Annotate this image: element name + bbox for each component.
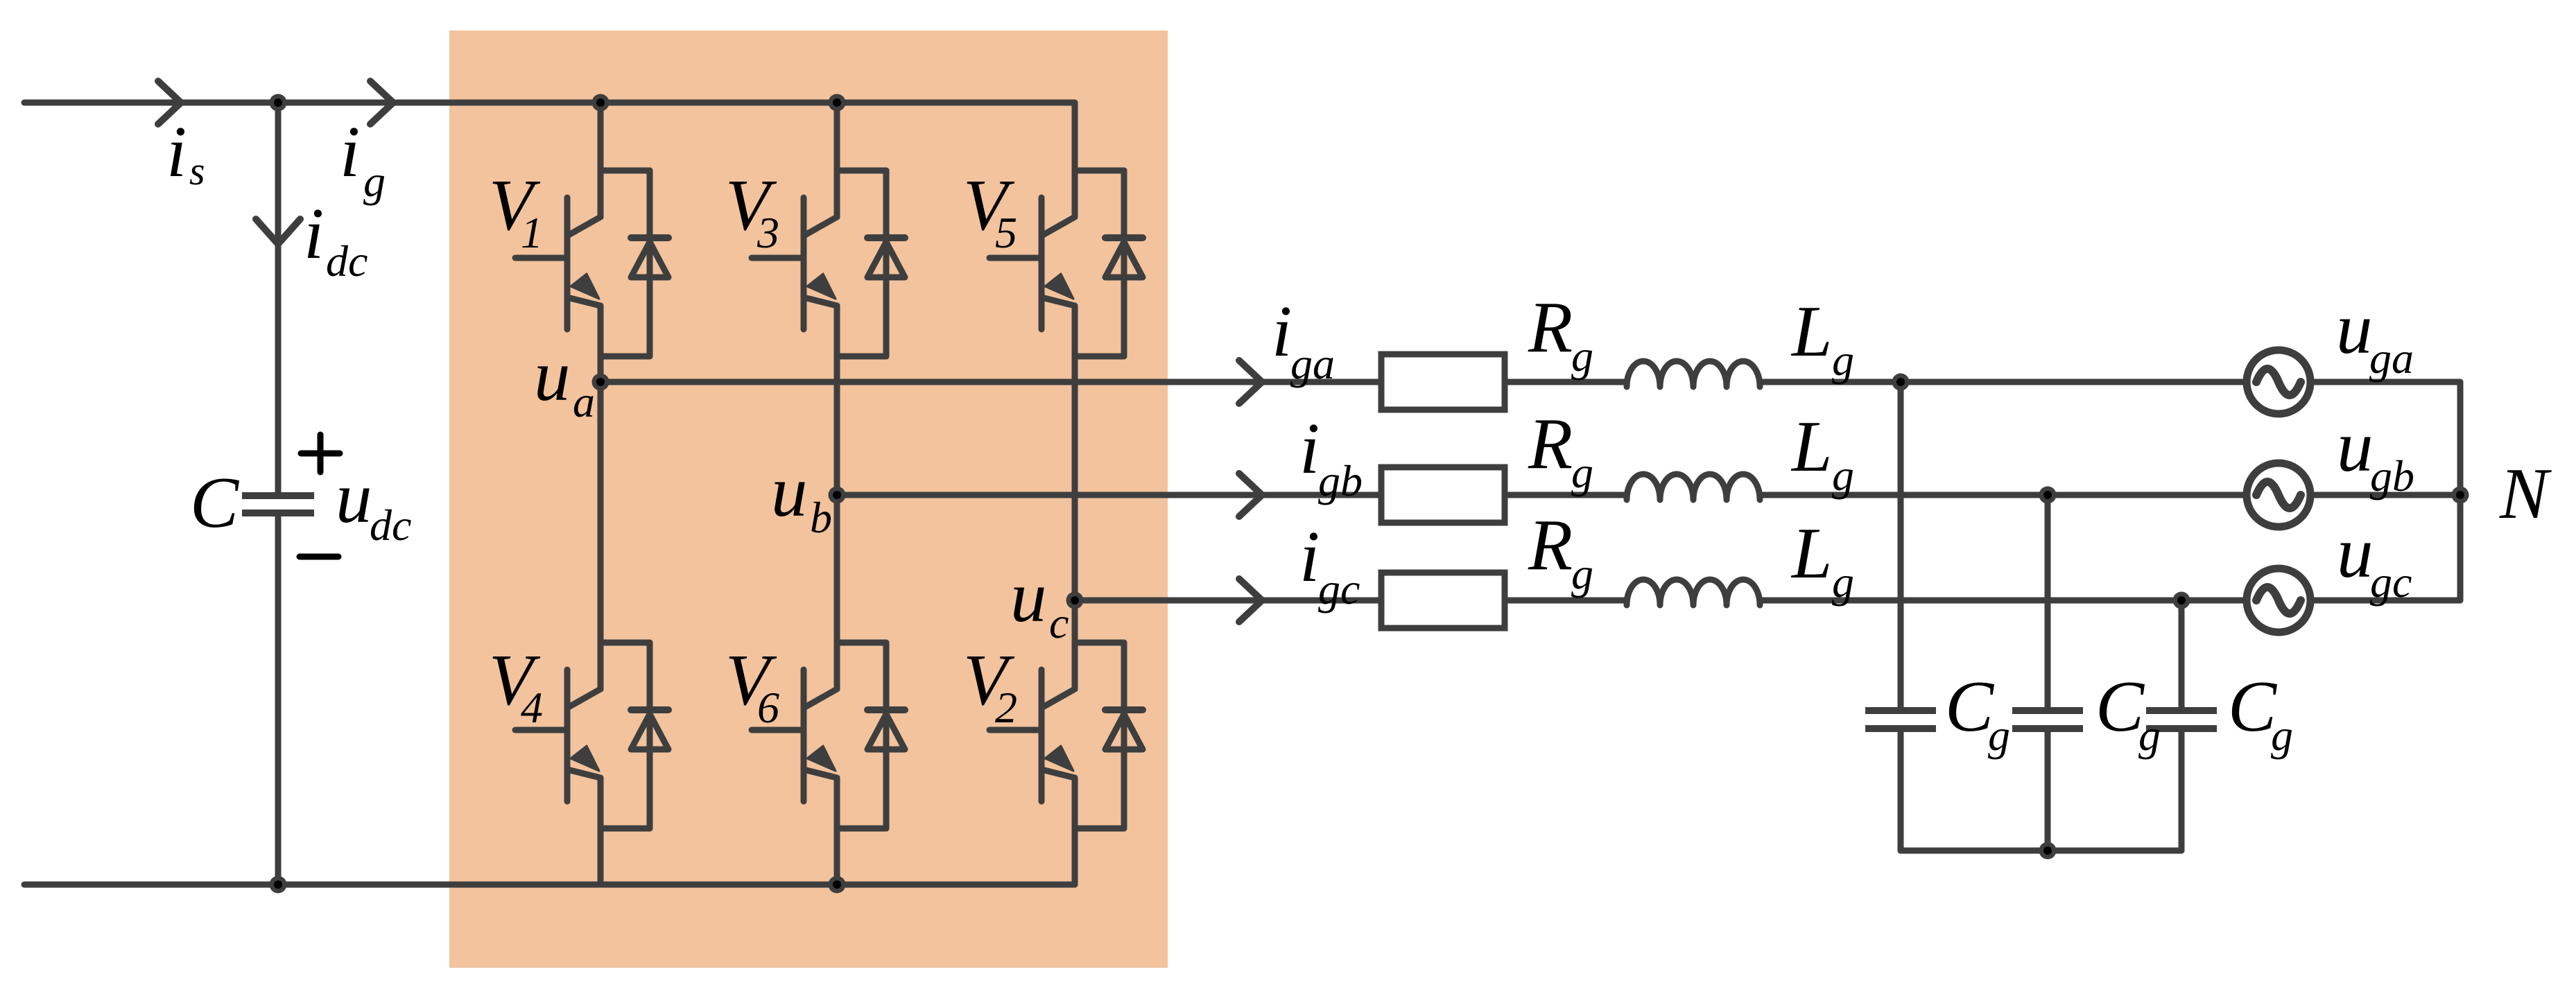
- svg-text:ga: ga: [1290, 339, 1335, 388]
- svg-text:a: a: [573, 377, 595, 426]
- svg-text:dc: dc: [326, 236, 368, 286]
- svg-text:N: N: [2499, 453, 2552, 534]
- svg-text:c: c: [1049, 598, 1069, 647]
- svg-text:gc: gc: [2370, 557, 2412, 607]
- svg-text:i: i: [340, 111, 360, 192]
- svg-text:u: u: [534, 335, 571, 416]
- svg-text:g: g: [2271, 711, 2293, 760]
- svg-text:2: 2: [995, 683, 1017, 732]
- svg-text:R: R: [1528, 504, 1573, 585]
- svg-text:L: L: [1790, 290, 1832, 372]
- svg-text:6: 6: [757, 683, 779, 732]
- svg-text:i: i: [166, 111, 187, 192]
- svg-text:u: u: [2336, 288, 2373, 369]
- svg-text:ga: ga: [2369, 333, 2414, 383]
- svg-text:i: i: [304, 193, 324, 274]
- svg-text:g: g: [1988, 711, 2010, 760]
- svg-text:u: u: [1010, 556, 1047, 637]
- svg-text:gc: gc: [1318, 564, 1360, 614]
- svg-text:gb: gb: [2370, 451, 2414, 501]
- svg-text:g: g: [2138, 711, 2161, 760]
- svg-text:u: u: [2337, 406, 2374, 487]
- svg-text:g: g: [1571, 549, 1593, 598]
- svg-text:i: i: [1272, 290, 1292, 372]
- svg-text:g: g: [1832, 557, 1854, 607]
- svg-text:gb: gb: [1318, 456, 1363, 505]
- svg-text:s: s: [189, 148, 205, 193]
- svg-text:R: R: [1528, 286, 1573, 367]
- svg-text:u: u: [2337, 512, 2374, 593]
- svg-text:g: g: [1832, 451, 1854, 500]
- svg-text:5: 5: [995, 208, 1017, 257]
- svg-text:4: 4: [521, 683, 543, 732]
- svg-text:C: C: [190, 462, 240, 543]
- svg-text:3: 3: [757, 208, 779, 257]
- svg-text:i: i: [1299, 408, 1320, 489]
- svg-text:b: b: [810, 493, 832, 542]
- svg-text:g: g: [363, 157, 386, 206]
- svg-text:L: L: [1790, 406, 1832, 487]
- svg-text:g: g: [1571, 448, 1593, 497]
- svg-text:L: L: [1790, 512, 1832, 593]
- svg-text:u: u: [771, 451, 808, 532]
- svg-text:1: 1: [521, 208, 543, 257]
- svg-text:R: R: [1528, 403, 1573, 484]
- svg-text:u: u: [336, 457, 372, 538]
- svg-text:g: g: [1571, 331, 1593, 381]
- svg-text:g: g: [1832, 336, 1854, 385]
- svg-text:i: i: [1299, 516, 1320, 597]
- svg-text:dc: dc: [370, 501, 411, 550]
